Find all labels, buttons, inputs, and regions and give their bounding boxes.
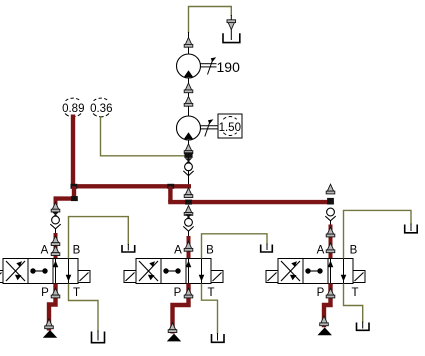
pressure line from flow meter 0.89 down to manifold (dark red) — [71, 115, 75, 187]
wire: thin link to port A — [55, 229, 57, 234]
variable displacement arrow of M1 — [208, 57, 217, 74]
junction node on lower bar at middle valve riser — [185, 200, 192, 205]
flow arrow (up) above motor M1 — [184, 38, 193, 48]
pressure source S3 (filled triangle) — [318, 327, 332, 335]
junction node on upper bar at gauge riser — [71, 184, 78, 189]
flow arrow (up) — [320, 316, 329, 326]
check valve CV2 seat — [183, 226, 193, 231]
flow arrow (up) below lower bar — [184, 206, 193, 216]
wire: valve V1 port P supply — [49, 284, 56, 331]
flow arrow (up) — [168, 323, 177, 333]
manifold lower bar (dark red) — [168, 200, 332, 204]
check valve CV2 ball — [185, 218, 193, 226]
svg-text:P: P — [174, 287, 182, 299]
wire: black stem into tank T0 — [230, 15, 232, 40]
valve V3 (4/3 proportional, right) body — [266, 259, 365, 284]
flow arrow between upper and lower bars — [184, 188, 193, 198]
flow arrow (up) — [51, 246, 60, 256]
wire: red segment to valve V2 port A — [187, 236, 191, 259]
manifold upper bar (dark red) — [71, 184, 191, 188]
check valve CV0 indicator — [185, 158, 192, 163]
wire: thin link — [330, 221, 332, 226]
wire: red segment to valve V1 port A — [54, 233, 58, 259]
svg-text:A: A — [317, 245, 325, 257]
wire: valve V1 port B to tank T1 — [69, 217, 129, 259]
wire: motor M1 outlet line — [188, 32, 190, 55]
wire: valve V3 port P supply — [324, 284, 331, 328]
tank T2 — [261, 244, 273, 253]
flow arrow (up) — [184, 83, 193, 93]
wire: valve V3 port T to tank T6 — [344, 284, 363, 323]
check valve CV3 seat — [325, 216, 335, 221]
flow arrow (up) — [184, 97, 193, 107]
tank T1 — [122, 244, 135, 252]
svg-text:1.50: 1.50 — [219, 122, 241, 134]
flow arrow (up) — [326, 227, 335, 237]
shaft of motor M1 — [201, 64, 217, 67]
svg-text:P: P — [317, 287, 325, 299]
flow arrow (up) below pump P1 — [184, 144, 193, 154]
tank T3 — [405, 224, 418, 233]
svg-text:0.36: 0.36 — [90, 103, 112, 115]
check valve CV1 indicator — [52, 212, 59, 217]
pressure source S1 (filled triangle) — [43, 330, 57, 338]
wire: valve V3 port B to tank T3 — [344, 210, 412, 258]
check valve CV0 ball — [185, 163, 193, 171]
svg-text:T: T — [351, 287, 358, 299]
wire: valve V2 port T to tank T5 — [202, 284, 218, 335]
flow arrow (up) — [184, 288, 193, 298]
step down to left bar (dark red) — [72, 186, 76, 198]
port labels valve V1 — [41, 245, 81, 300]
junction node at right end of lower bar — [327, 198, 334, 205]
flow meter display 0.89 — [62, 98, 84, 117]
wire: valve V2 port B to tank T2 — [202, 234, 268, 259]
check valve CV2 indicator — [185, 214, 192, 219]
wire: red segment to valve V3 port A — [329, 225, 333, 259]
flow arrow (down) into tank T0 — [227, 20, 236, 30]
tank T4 — [92, 331, 105, 343]
svg-text:0.89: 0.89 — [62, 103, 84, 115]
wire: between motor M1 and pump P1 — [188, 78, 190, 116]
left bar of manifold (dark red) — [54, 196, 77, 200]
svg-text:B: B — [350, 245, 358, 257]
flow arrow (up) — [184, 242, 193, 252]
tank T5 — [212, 333, 225, 342]
check valve CV3 ball — [327, 208, 335, 216]
shaft of pump P1 — [201, 126, 219, 129]
flow meter display 0.36 — [90, 98, 112, 117]
check valve CV1 seat — [50, 224, 60, 229]
svg-text:B: B — [73, 245, 81, 257]
check valve CV1 ball — [52, 216, 60, 224]
wire: pilot/return line from motor M1 outlet to tank (olive) — [189, 7, 232, 34]
wire: valve V2 port P supply — [173, 284, 189, 334]
check valve CV0 seat — [183, 171, 193, 176]
tank T0 (top reservoir) — [223, 33, 240, 42]
junction node (olive pilot joins pump line) — [184, 152, 192, 158]
valve V1 (4/3 proportional, left) body — [0, 259, 90, 284]
wire: valve V1 port T to tank T4 — [69, 284, 99, 332]
pump P1 (variable displacement) — [177, 116, 201, 140]
port labels valve V2 — [174, 245, 215, 300]
svg-text:A: A — [174, 245, 182, 257]
wire: thin link to port A — [188, 231, 190, 237]
step down to lower bar (dark red) — [168, 186, 172, 202]
motor M1 (variable displacement, 190) — [177, 54, 201, 78]
pump P1 inlet line (down to manifold) — [188, 140, 190, 185]
pilot line from flow meter 0.36 to pump inlet node (olive) — [101, 116, 186, 156]
wire: red drop from left bar to check valve CV1 — [54, 199, 58, 214]
junction node on upper bar at step-down — [167, 184, 174, 189]
svg-text:A: A — [41, 245, 49, 257]
flow arrow (up) — [51, 288, 60, 298]
svg-text:190: 190 — [217, 59, 241, 75]
svg-text:T: T — [73, 287, 80, 299]
flow arrow (up) — [326, 243, 335, 253]
tank T6 — [357, 322, 370, 331]
flow arrow (up) above bar end — [326, 184, 335, 194]
svg-text:B: B — [206, 245, 214, 257]
pressure source S2 (filled triangle) — [167, 334, 181, 342]
svg-text:P: P — [41, 287, 49, 299]
svg-text:T: T — [207, 287, 214, 299]
variable displacement arrow of P1 — [205, 119, 214, 136]
rpm display box 1.50 (prime mover) — [218, 114, 242, 138]
flow arrow (up) — [45, 319, 54, 329]
flow arrow (up) — [51, 202, 60, 212]
valve V2 (4/3 proportional, middle) body — [124, 259, 223, 284]
junction node at left bar corner — [71, 196, 78, 201]
port labels valve V3 — [317, 245, 359, 300]
flow arrow (up) — [326, 288, 335, 298]
flow arrow (up) — [51, 236, 60, 246]
